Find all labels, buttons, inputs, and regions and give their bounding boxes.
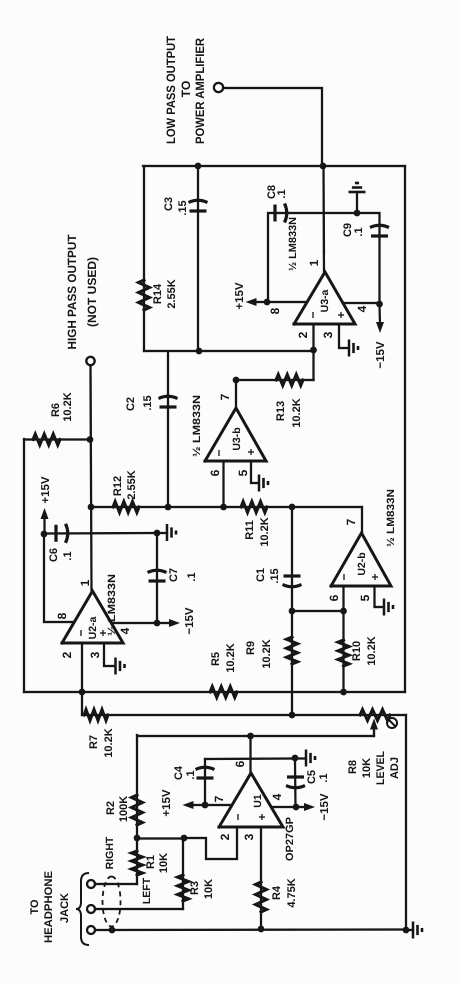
svg-text:(NOT USED): (NOT USED) bbox=[85, 257, 99, 327]
capacitor C5 bbox=[286, 777, 305, 788]
wire bottom feedback bus bbox=[404, 166, 406, 692]
capacitor C4 bbox=[196, 767, 215, 778]
wire low-pass output bus bbox=[143, 165, 405, 167]
label C9 bbox=[342, 223, 365, 237]
wire C7 line bbox=[156, 533, 158, 623]
svg-text:OP27GP: OP27GP bbox=[284, 817, 296, 861]
svg-text:R2: R2 bbox=[105, 801, 117, 815]
svg-text:3: 3 bbox=[242, 833, 256, 840]
plug cable dashed ellipse bbox=[103, 877, 121, 927]
node 1 bbox=[79, 689, 86, 696]
ground C4/C5 bbox=[295, 750, 315, 767]
arrow +15V U2-a bbox=[41, 508, 49, 534]
svg-text:2: 2 bbox=[60, 651, 74, 658]
svg-text:R8: R8 bbox=[347, 760, 359, 774]
label R2 bbox=[105, 796, 130, 822]
pin 6 U1 bbox=[233, 760, 247, 767]
wire R3 line bbox=[182, 838, 184, 909]
label R9 bbox=[245, 639, 273, 668]
wire R10 line bbox=[342, 586, 344, 692]
wire U2-a inverting-input bus bbox=[24, 691, 405, 693]
pin 3 U3-a bbox=[321, 331, 335, 338]
svg-text:.1: .1 bbox=[186, 572, 198, 581]
label half LM833N U2-a bbox=[106, 574, 118, 636]
capacitor C1 bbox=[283, 576, 302, 587]
label C1 bbox=[255, 568, 281, 584]
ground U2-a pin3 bbox=[116, 658, 125, 675]
screwdriver adjust symbol bbox=[387, 718, 397, 728]
op-amp U2-a bbox=[62, 591, 123, 643]
label R4 bbox=[271, 878, 298, 907]
svg-text:U3-a: U3-a bbox=[319, 289, 331, 312]
svg-text:+15V: +15V bbox=[161, 789, 173, 817]
wire C2 line bbox=[167, 351, 169, 507]
wire U1 pin4 bbox=[272, 806, 296, 808]
node 11 bbox=[292, 755, 299, 762]
wire C8 line bbox=[268, 213, 357, 302]
node 12 bbox=[202, 802, 209, 809]
arrow +15V U1 bbox=[183, 801, 206, 809]
ground U3-a pin3 bbox=[349, 340, 358, 357]
pin 4 U3-a bbox=[355, 305, 369, 312]
svg-text:½ LM833N: ½ LM833N bbox=[191, 395, 203, 457]
label R7 bbox=[88, 728, 115, 757]
label -15V U3-a bbox=[375, 341, 387, 369]
svg-text:LOW PASS OUTPUT: LOW PASS OUTPUT bbox=[164, 35, 178, 144]
capacitor C6 line bbox=[44, 532, 157, 535]
svg-text:.15: .15 bbox=[269, 568, 281, 583]
svg-text:8: 8 bbox=[55, 612, 69, 619]
svg-text:10.2K: 10.2K bbox=[366, 636, 378, 665]
wire R4 line bbox=[260, 827, 262, 929]
svg-text:HIGH PASS OUTPUT: HIGH PASS OUTPUT bbox=[65, 234, 79, 350]
svg-text:10K: 10K bbox=[361, 758, 373, 778]
svg-text:+: + bbox=[334, 311, 348, 318]
svg-text:.15: .15 bbox=[142, 395, 154, 410]
node 6 bbox=[258, 926, 265, 933]
ground C8/C9 bbox=[349, 183, 366, 213]
svg-text:U2-b: U2-b bbox=[356, 552, 368, 575]
node 24 bbox=[196, 348, 203, 355]
wire U1 output bbox=[249, 736, 251, 773]
label R6 bbox=[50, 392, 74, 421]
svg-text:4: 4 bbox=[270, 793, 284, 800]
node 23 bbox=[310, 347, 317, 354]
label R5 bbox=[210, 643, 237, 672]
svg-text:−: − bbox=[306, 311, 320, 318]
svg-text:5: 5 bbox=[358, 594, 372, 601]
svg-text:R14: R14 bbox=[152, 283, 164, 304]
svg-text:10.2K: 10.2K bbox=[225, 643, 237, 672]
resistor R9 bbox=[287, 637, 298, 664]
wire U2-a output / high-pass line bbox=[91, 365, 92, 591]
svg-text:10.2K: 10.2K bbox=[103, 728, 115, 757]
pin 8 U2-a bbox=[55, 612, 69, 619]
pin 1 U2-a bbox=[78, 579, 92, 586]
pin 2 U2-a bbox=[60, 651, 74, 658]
terminal low-pass output bbox=[214, 83, 223, 92]
ground C6/C7 bbox=[157, 524, 176, 541]
pin 8 U3-a bbox=[268, 307, 282, 314]
label R12 bbox=[112, 470, 138, 499]
label TO HEADPHONE JACK bbox=[29, 871, 71, 943]
svg-text:10K: 10K bbox=[203, 879, 215, 899]
label OP27GP bbox=[284, 817, 296, 861]
svg-text:+: + bbox=[255, 813, 269, 820]
wire U2-b pin5 ground stub bbox=[375, 586, 384, 607]
node 26 bbox=[320, 163, 327, 170]
resistor R7 bbox=[84, 710, 108, 721]
pin 5 U3-b bbox=[236, 469, 250, 476]
svg-text:½ LM833N: ½ LM833N bbox=[106, 574, 118, 636]
svg-text:8: 8 bbox=[268, 307, 282, 314]
resistor R10 bbox=[338, 640, 349, 666]
wire bandpass bus (U2-b out / R12 / R11) bbox=[91, 506, 362, 508]
arrow -15V U1 bbox=[296, 803, 315, 811]
label LEFT bbox=[141, 877, 153, 904]
label -15V U2-a bbox=[184, 607, 196, 635]
capacitor C2 bbox=[159, 396, 178, 407]
svg-text:R6: R6 bbox=[50, 403, 62, 417]
node 5 bbox=[181, 835, 188, 842]
wire R8 wiper bbox=[370, 719, 378, 737]
label half LM833N U2-b bbox=[385, 489, 397, 547]
capacitor C9 bbox=[370, 225, 389, 236]
label half LM833N U3-b bbox=[191, 395, 203, 457]
wire C4 line bbox=[204, 759, 206, 805]
wire summing node link bbox=[137, 837, 184, 839]
svg-text:C1: C1 bbox=[255, 568, 267, 582]
arrow +15V U3-a bbox=[246, 298, 268, 306]
svg-text:R10: R10 bbox=[351, 641, 363, 661]
wire U3-a pin8 supply bbox=[267, 301, 307, 303]
svg-text:10.2K: 10.2K bbox=[259, 517, 271, 546]
svg-text:C7: C7 bbox=[168, 568, 180, 582]
svg-text:−: − bbox=[337, 573, 351, 580]
wire C9 line bbox=[357, 213, 380, 304]
arrow -15V U3-a bbox=[376, 304, 384, 333]
wire C1/R9 line bbox=[291, 507, 293, 715]
svg-text:C3: C3 bbox=[163, 197, 175, 211]
pin 2 U1 bbox=[218, 833, 232, 840]
svg-text:POWER AMPLIFIER: POWER AMPLIFIER bbox=[193, 38, 207, 144]
resistor R6 bbox=[33, 434, 60, 445]
svg-text:−15V: −15V bbox=[319, 793, 331, 821]
wire R6 branch bbox=[24, 438, 90, 440]
wire R14 feedback line bbox=[143, 166, 145, 351]
svg-text:U3-b: U3-b bbox=[231, 427, 243, 450]
wire C1 to pin6 link bbox=[292, 610, 344, 612]
ground U2-b pin5 bbox=[384, 599, 393, 616]
svg-text:3: 3 bbox=[321, 331, 335, 338]
svg-text:.1: .1 bbox=[353, 227, 365, 236]
ground main bbox=[406, 922, 422, 939]
wire U3-a input node bus bbox=[144, 350, 314, 352]
svg-text:.1: .1 bbox=[185, 770, 197, 779]
node 8 bbox=[403, 927, 410, 934]
wire U3-b pin6 bbox=[220, 461, 227, 510]
label HIGH PASS OUTPUT bbox=[65, 234, 99, 350]
svg-text:4: 4 bbox=[355, 305, 369, 312]
terminal jack ring bbox=[87, 905, 95, 913]
svg-text:.1: .1 bbox=[62, 551, 74, 560]
node 21 bbox=[340, 608, 347, 615]
resistor R5 bbox=[210, 687, 237, 698]
resistor R12 bbox=[113, 502, 139, 513]
op-amp U2-b bbox=[331, 533, 391, 586]
pin 7 U2-b bbox=[344, 518, 358, 525]
node 15 bbox=[154, 620, 161, 627]
pin 2 U3-a bbox=[296, 331, 310, 338]
svg-text:−: − bbox=[212, 449, 226, 456]
svg-text:JACK: JACK bbox=[59, 893, 71, 923]
label C4 bbox=[173, 765, 197, 780]
label R11 bbox=[244, 517, 271, 546]
svg-text:+: + bbox=[368, 573, 382, 580]
label C6 bbox=[48, 548, 74, 562]
node 10 bbox=[293, 804, 300, 811]
wire U3-a output bbox=[322, 166, 325, 272]
wire R1/R2 line bbox=[136, 735, 138, 884]
wire C3 line bbox=[197, 166, 199, 350]
pin 5 U2-b bbox=[358, 594, 372, 601]
label R13 bbox=[275, 398, 303, 427]
svg-text:R12: R12 bbox=[112, 476, 124, 496]
svg-text:−: − bbox=[74, 629, 88, 636]
node 7 bbox=[109, 927, 116, 934]
arrow -15V U2-a bbox=[157, 619, 180, 627]
wire jack tip lead bbox=[95, 883, 137, 885]
svg-text:1: 1 bbox=[78, 579, 92, 586]
brace jack bbox=[76, 873, 89, 945]
terminal high-pass output bbox=[86, 357, 94, 365]
pin 6 U2-b bbox=[327, 594, 341, 601]
svg-text:.15: .15 bbox=[177, 200, 189, 215]
svg-text:100K: 100K bbox=[118, 796, 130, 822]
svg-text:LEVEL: LEVEL bbox=[375, 751, 387, 785]
wire low-pass takeoff bbox=[224, 88, 322, 166]
node 29 bbox=[376, 301, 383, 308]
node 19 bbox=[289, 504, 296, 511]
svg-text:C4: C4 bbox=[173, 765, 185, 780]
svg-text:10.2K: 10.2K bbox=[62, 392, 74, 421]
capacitor C3 bbox=[189, 200, 208, 211]
svg-text:+15V: +15V bbox=[40, 476, 52, 504]
node 17 bbox=[87, 436, 94, 443]
node 16 bbox=[88, 504, 95, 511]
label +15V U3-a bbox=[234, 282, 246, 310]
label +15V U1 bbox=[161, 789, 173, 817]
op-amp U1 bbox=[219, 773, 283, 827]
svg-text:½ LM833N: ½ LM833N bbox=[287, 217, 299, 271]
wire top feedback run (R6 line to U2-a input node) bbox=[23, 439, 25, 692]
svg-text:+15V: +15V bbox=[234, 282, 246, 310]
svg-text:2: 2 bbox=[296, 331, 310, 338]
node 25 bbox=[195, 163, 202, 170]
svg-text:−: − bbox=[231, 813, 245, 820]
pin 7 U1 bbox=[212, 795, 226, 802]
svg-text:½ LM833N: ½ LM833N bbox=[385, 489, 397, 547]
pin 3 U1 bbox=[242, 833, 256, 840]
wire R7/R8 level-pot bus bbox=[82, 714, 406, 716]
wire U1 pin2 staircase bbox=[184, 827, 237, 859]
wire U3-a pin3 ground stub bbox=[339, 324, 348, 348]
svg-text:6: 6 bbox=[327, 594, 341, 601]
svg-text:6: 6 bbox=[233, 760, 247, 767]
pin 6 U3-b bbox=[208, 469, 222, 476]
svg-text:TO: TO bbox=[29, 899, 41, 915]
pin 1 U3-a bbox=[307, 259, 321, 266]
label R10 bbox=[351, 636, 378, 665]
terminal jack sleeve bbox=[87, 926, 95, 934]
wire bottom ground bus bbox=[405, 715, 407, 930]
svg-text:3: 3 bbox=[88, 651, 102, 658]
capacitor C8 bbox=[275, 204, 287, 223]
wire U1 output bus / R2-R8 link bbox=[137, 735, 374, 737]
resistor R3 bbox=[178, 875, 189, 901]
svg-text:2.55K: 2.55K bbox=[126, 470, 138, 499]
svg-text:10.2K: 10.2K bbox=[291, 398, 303, 427]
svg-text:1: 1 bbox=[307, 259, 321, 266]
node 18 bbox=[165, 504, 172, 511]
wire C5 line bbox=[294, 758, 297, 807]
svg-text:LEFT: LEFT bbox=[141, 877, 153, 904]
node 13 bbox=[41, 531, 48, 538]
node 4 bbox=[134, 835, 141, 842]
node 9 bbox=[247, 733, 254, 740]
label C2 bbox=[125, 395, 154, 411]
node 27 bbox=[264, 299, 271, 306]
wire R13 branch bbox=[236, 379, 314, 381]
wire jack ring lead bbox=[95, 908, 183, 910]
svg-text:+: + bbox=[244, 448, 258, 455]
svg-text:C2: C2 bbox=[125, 397, 137, 411]
wire headphone sleeve bus bbox=[95, 928, 406, 931]
ground U3-b pin5 bbox=[259, 475, 268, 492]
resistor R11 bbox=[241, 502, 267, 513]
node 2 bbox=[340, 689, 347, 696]
svg-text:R9: R9 bbox=[245, 641, 257, 655]
wire U3-b output bbox=[235, 380, 237, 408]
wire U3-b pin5 ground stub bbox=[251, 461, 258, 483]
label C7 bbox=[168, 568, 198, 582]
node 28 bbox=[354, 210, 361, 217]
wire U3-a pin4 bbox=[343, 302, 380, 304]
capacitor C7 bbox=[148, 570, 167, 581]
svg-text:4: 4 bbox=[118, 627, 132, 634]
pin 3 U2-a bbox=[88, 651, 102, 658]
wire U1 pin7 supply bbox=[205, 804, 232, 806]
capacitor C6 bbox=[56, 524, 68, 543]
svg-text:C5: C5 bbox=[306, 770, 318, 784]
svg-text:10K: 10K bbox=[158, 853, 170, 873]
svg-text:C6: C6 bbox=[48, 548, 60, 562]
label C3 bbox=[163, 197, 189, 216]
svg-text:−15V: −15V bbox=[375, 341, 387, 369]
svg-text:ADJ: ADJ bbox=[389, 757, 401, 779]
node 22 bbox=[233, 377, 240, 384]
label R14 bbox=[152, 279, 178, 308]
resistor R14 bbox=[139, 280, 150, 310]
pin 7 U3-b bbox=[218, 393, 232, 400]
svg-text:R11: R11 bbox=[244, 520, 256, 540]
svg-text:R1: R1 bbox=[145, 855, 157, 869]
label RIGHT bbox=[104, 836, 116, 869]
svg-text:R7: R7 bbox=[88, 735, 100, 749]
wire C4 to ground link bbox=[205, 757, 295, 760]
resistor R2 bbox=[132, 795, 143, 825]
svg-text:−15V: −15V bbox=[184, 607, 196, 635]
svg-text:TO: TO bbox=[179, 81, 193, 98]
resistor R8 level pot bbox=[360, 710, 390, 721]
op-amp U3-b bbox=[205, 408, 266, 461]
svg-text:7: 7 bbox=[218, 393, 232, 400]
svg-text:R4: R4 bbox=[271, 885, 283, 900]
wire U2-b output bbox=[361, 507, 363, 533]
svg-text:RIGHT: RIGHT bbox=[104, 836, 116, 869]
label +15V U2-a bbox=[40, 476, 52, 504]
node 14 bbox=[154, 530, 161, 537]
svg-text:HEADPHONE: HEADPHONE bbox=[43, 871, 55, 943]
wire U2-a pin3 ground stub bbox=[104, 643, 114, 666]
label C5 bbox=[306, 770, 330, 784]
svg-text:7: 7 bbox=[212, 795, 226, 802]
svg-text:4.75K: 4.75K bbox=[286, 878, 298, 907]
label -15V U1 bbox=[319, 793, 331, 821]
label half LM833N U3-a bbox=[287, 217, 299, 271]
terminal jack tip bbox=[87, 880, 95, 888]
op-amp U3-a bbox=[294, 272, 355, 324]
svg-text:5: 5 bbox=[236, 469, 250, 476]
resistor R4 bbox=[256, 882, 267, 912]
resistor R13 bbox=[276, 375, 303, 386]
svg-text:7: 7 bbox=[344, 518, 358, 525]
label R1 bbox=[145, 853, 170, 873]
svg-text:.1: .1 bbox=[276, 189, 288, 198]
wire U2-a pin4 bbox=[112, 622, 158, 624]
resistor R1 bbox=[132, 851, 143, 875]
svg-text:R13: R13 bbox=[275, 401, 287, 421]
svg-text:2.55K: 2.55K bbox=[166, 279, 178, 308]
svg-text:U1: U1 bbox=[252, 794, 264, 808]
pin 4 U2-a bbox=[118, 627, 132, 634]
label R3 bbox=[189, 879, 215, 899]
wire U3-a pin2 line bbox=[312, 324, 314, 380]
svg-text:.1: .1 bbox=[318, 773, 330, 782]
svg-text:R3: R3 bbox=[189, 881, 201, 895]
node 3 bbox=[289, 712, 296, 719]
pin 4 U1 bbox=[270, 793, 284, 800]
wire pin2 U2-a to node bbox=[81, 643, 83, 715]
svg-text:R5: R5 bbox=[210, 652, 222, 666]
label R8 LEVEL ADJ bbox=[347, 751, 401, 785]
svg-text:10.2K: 10.2K bbox=[261, 639, 273, 668]
svg-text:2: 2 bbox=[218, 833, 232, 840]
label C8 bbox=[266, 185, 288, 199]
wire U2-a pin8 supply bbox=[44, 534, 73, 622]
label LOW PASS OUTPUT bbox=[164, 35, 207, 144]
svg-text:6: 6 bbox=[208, 469, 222, 476]
node 20 bbox=[289, 608, 296, 615]
